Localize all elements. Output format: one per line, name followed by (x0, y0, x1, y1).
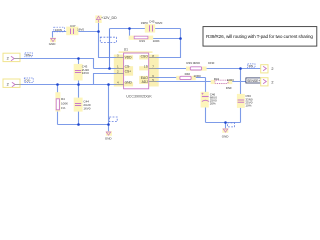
svg-text:R40: R40 (185, 72, 191, 76)
connector pin 2 (DS+) (3, 53, 21, 61)
svg-text:SENSE+: SENSE+ (247, 79, 260, 83)
svg-text:20%: 20% (210, 102, 216, 106)
wire C44 column (78, 85, 80, 125)
pin stub 6 EAO (149, 77, 157, 79)
svg-text:+12V_DD: +12V_DD (101, 16, 117, 20)
note box (203, 27, 317, 46)
connector pin 2 (right DS) (261, 65, 274, 73)
svg-text:50V0: 50V0 (155, 21, 162, 25)
junction node C43 top (77, 57, 80, 60)
svg-text:ADJ: ADJ (142, 80, 149, 84)
wire C37 gnd drop (52, 31, 54, 38)
op-amp U1 body UCC39002DGK (124, 53, 149, 89)
svg-text:2: 2 (271, 67, 273, 71)
svg-text:U1: U1 (124, 47, 128, 51)
IC U1 highlight background (114, 51, 159, 86)
wire CS- feedback vertical (109, 29, 111, 69)
junction node R4 top (56, 83, 59, 86)
svg-text:DS+: DS+ (26, 53, 32, 57)
pin stub 3 VDD (116, 57, 124, 59)
svg-text:GND: GND (125, 81, 133, 85)
svg-text:100N: 100N (55, 28, 62, 32)
svg-text:10R0: 10R0 (194, 74, 202, 78)
wire bottom rail right (206, 122, 241, 124)
wire C50 column (240, 69, 242, 123)
connector pin 2 (right SENSE) (261, 78, 274, 86)
node dashed box bottom-right (227, 123, 234, 127)
capacitor C46 electrolytic (201, 92, 218, 108)
svg-text:VDD: VDD (125, 56, 133, 60)
net label DS (right) (248, 64, 255, 68)
capacitor C45 (141, 19, 163, 32)
resistor R39 (186, 61, 215, 71)
pin stub 8 CSO (149, 57, 157, 59)
junction node C43/C44 (77, 83, 80, 86)
wire CS+ row jog (94, 74, 117, 85)
junction node feedback right (179, 37, 182, 40)
wire gnd stub left (108, 125, 110, 133)
capacitor C44 (74, 98, 91, 112)
wire GND drop left (108, 85, 110, 125)
power +12V_DD (95, 15, 117, 23)
wire R4 column (57, 85, 59, 125)
net label DS- (24, 78, 33, 83)
wire R19 branch (130, 29, 181, 39)
capacitor C43 (74, 64, 90, 81)
svg-text:DS: DS (249, 64, 253, 68)
svg-text:33P0: 33P0 (141, 21, 148, 25)
svg-text:GND: GND (49, 42, 57, 46)
svg-text:CS-: CS- (125, 64, 131, 68)
svg-text:UCC39002DGK: UCC39002DGK (126, 94, 152, 98)
wire LS row pin7 (157, 68, 264, 70)
resistor R41 (DNF dashed) (211, 77, 235, 90)
svg-text:R39 0R00: R39 0R00 (186, 61, 200, 65)
pin stub 7 LS (149, 68, 157, 70)
svg-text:2: 2 (271, 80, 273, 84)
off-page SENSE+ (246, 78, 262, 83)
ground (bottom left) (105, 131, 113, 140)
svg-text:GND: GND (105, 137, 113, 141)
wire power stem (98, 23, 100, 32)
junction node gnd left (107, 123, 110, 126)
wire feedback right vertical to CSO (157, 29, 181, 58)
net label DS+ (25, 53, 32, 57)
junction node CS- (108, 67, 111, 70)
svg-text:C37: C37 (70, 24, 76, 28)
wire gnd stub right (225, 123, 227, 129)
node dashed box top (100, 37, 116, 42)
wire C46 column (205, 78, 207, 123)
svg-text:CSO: CSO (141, 55, 149, 59)
wire power to VDD (99, 32, 117, 58)
wire CS- row (94, 68, 117, 70)
junction node C37/power (97, 30, 100, 33)
ground (bottom right) (222, 128, 230, 138)
svg-text:R19: R19 (139, 39, 145, 43)
wire C43 column (78, 59, 80, 85)
svg-text:R39/R26, will routing with T-p: R39/R26, will routing with T-pad for two… (206, 34, 313, 39)
capacitor C50 (237, 94, 253, 108)
junction node C44 bottom (77, 123, 80, 126)
svg-text:16V0: 16V0 (77, 28, 84, 32)
svg-text:R4: R4 (61, 97, 65, 101)
pin stub 1 CS- (116, 68, 124, 70)
svg-text:16V0: 16V0 (83, 106, 90, 110)
svg-text:DNF: DNF (208, 61, 214, 65)
wire ADJ row pin5 (157, 81, 264, 83)
svg-text:GND: GND (222, 135, 230, 139)
svg-text:2: 2 (7, 83, 9, 87)
svg-text:DNF: DNF (226, 86, 232, 90)
connector pin 2 (DS-) (3, 79, 21, 87)
svg-text:C45: C45 (149, 19, 155, 23)
wire EAO row pin6 (157, 77, 206, 79)
IC labels (117, 47, 154, 98)
pin stub 4 GND (116, 84, 124, 86)
wire bottom rail left (58, 124, 109, 126)
junction node DS right (239, 67, 242, 70)
svg-text:2: 2 (7, 57, 9, 61)
svg-text:100K: 100K (153, 39, 160, 43)
svg-text:R41: R41 (214, 77, 220, 81)
svg-text:1%: 1% (61, 106, 66, 110)
pin stub 5 ADJ (149, 81, 157, 83)
svg-text:CS+: CS+ (125, 70, 132, 74)
junction node feedback top (128, 27, 131, 30)
resistor R4 (55, 92, 68, 111)
svg-text:16V0: 16V0 (82, 71, 89, 75)
svg-text:10%: 10% (245, 104, 251, 108)
svg-text:DS-: DS- (25, 79, 30, 83)
pin stub 2 CS+ (116, 73, 124, 75)
wire DS- rail (21, 84, 116, 86)
wire DS+ row (21, 59, 94, 69)
resistor R26 (176, 72, 201, 80)
junction node gnd right (224, 121, 227, 124)
node dashed box bottom-left (109, 117, 117, 122)
svg-text:10R0: 10R0 (227, 78, 235, 82)
wire feedback top row (110, 28, 181, 30)
wire C37 row (53, 31, 100, 33)
ground (below C37) (49, 38, 57, 47)
capacitor C37 (54, 24, 85, 35)
junction node DS- drop (107, 83, 110, 86)
resistor R19 (129, 36, 160, 44)
